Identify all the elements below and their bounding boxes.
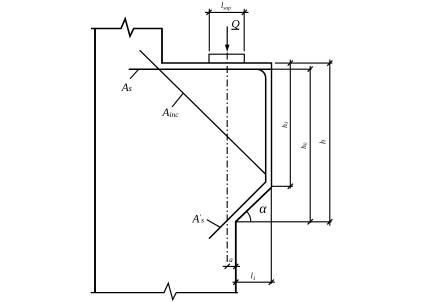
load arrowhead <box>225 45 230 52</box>
a dimension line <box>223 265 240 267</box>
top extension line for h1 and h <box>275 62 332 64</box>
bottom extension line (alpha baseline) <box>236 221 332 223</box>
inclined bar Ainc <box>140 50 266 174</box>
l1 dimension line <box>233 281 275 283</box>
concrete outline: bottom edge with break symbol <box>91 283 238 299</box>
extension line at bar level for h0 <box>272 68 312 70</box>
centerline (dash-dot) <box>226 53 228 265</box>
lsup extension line left <box>208 9 210 52</box>
concrete outline: left edge <box>94 28 96 293</box>
concrete outline: beam right edge <box>271 62 273 187</box>
h1 bottom tick <box>288 184 293 189</box>
concrete outline: beam top surface <box>161 62 272 64</box>
bearing plate <box>209 54 244 63</box>
load Q underline <box>231 28 239 30</box>
concrete outline: step edge <box>161 28 163 63</box>
svg-text:α: α <box>259 202 267 217</box>
lsup tick left <box>206 10 211 15</box>
concrete outline: top edge with break symbol <box>91 19 162 36</box>
concrete outline: chamfer edge <box>236 187 272 221</box>
h1 bottom extension line <box>272 185 293 187</box>
dimension line h1 <box>289 60 291 189</box>
l1 extension line (from chamfer corner down) <box>270 188 272 284</box>
reinforcement bar As (bend-down anchorage) <box>209 69 266 238</box>
l1 tick right <box>269 280 274 285</box>
svg-text:As: As <box>121 82 132 94</box>
h1 top tick <box>288 61 293 66</box>
h bottom tick <box>327 219 332 224</box>
dimension line h0 <box>309 66 311 223</box>
h0 bottom tick <box>308 219 313 224</box>
lsup dimension line <box>205 11 249 13</box>
As leader line <box>130 70 139 79</box>
lsup tick right <box>242 10 247 15</box>
reinforcement bar As (horizontal top run) <box>129 68 272 70</box>
lsup extension line right <box>243 9 245 52</box>
svg-text:a: a <box>229 256 233 264</box>
A's leader line <box>207 220 220 228</box>
alpha angle arc <box>247 211 251 221</box>
dimension line h <box>329 60 331 226</box>
h top tick <box>327 61 332 66</box>
h0 top tick <box>308 67 313 72</box>
a tick right <box>233 264 238 269</box>
concrete outline: lower right edge <box>235 221 237 293</box>
a tick left <box>225 264 230 269</box>
load arrow shaft <box>226 26 228 46</box>
Ainc leader line <box>172 94 183 108</box>
svg-text:h: h <box>319 140 328 144</box>
l1 tick left <box>233 280 238 285</box>
